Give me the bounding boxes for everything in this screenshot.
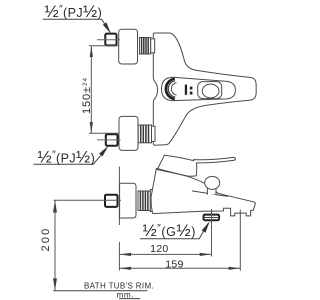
label PJ top: leader xyxy=(43,19,110,31)
dim 159 line xyxy=(119,267,240,269)
dim 120 line xyxy=(119,253,211,255)
bottom inlet: knurled nut xyxy=(138,125,155,143)
top inlet: knurled nut xyxy=(140,38,155,55)
side: handle lever xyxy=(157,155,235,176)
side: knurled nut xyxy=(138,190,157,212)
side: faucet body silhouette xyxy=(151,168,255,216)
side: wall flange xyxy=(120,183,136,218)
side: spout near-edge line xyxy=(192,191,228,197)
top inlet: eccentric square xyxy=(105,34,116,46)
top inlet: union flange xyxy=(119,29,138,64)
svg-text:120: 120 xyxy=(150,243,168,255)
label PJ bottom: leader xyxy=(33,149,106,165)
svg-text:200: 200 xyxy=(40,227,52,252)
side: diverter stem xyxy=(207,189,216,195)
side: body top edge at handle xyxy=(156,168,187,176)
svg-text:mm.: mm. xyxy=(117,290,135,299)
svg-text:½″(PJ½): ½″(PJ½) xyxy=(38,148,96,167)
dim 150 line xyxy=(90,46,92,133)
bottom inlet: union flange xyxy=(119,116,138,150)
svg-text:½″(PJ½): ½″(PJ½) xyxy=(45,2,103,21)
top view: indicator dots xyxy=(185,85,193,95)
top view: faucet body outline xyxy=(153,33,256,145)
top view: handle pill xyxy=(162,77,236,100)
dim 120 extension xyxy=(211,209,213,257)
dim 200: extension + line xyxy=(54,200,122,290)
dim 150 extension lines xyxy=(89,46,119,133)
label G: leader xyxy=(140,224,208,239)
side: eccentric square fitting xyxy=(105,195,118,207)
dim 150 arrows xyxy=(90,46,93,133)
dim 159 extension xyxy=(239,210,241,271)
top view: handle cap arcs xyxy=(166,79,175,99)
side: wall line xyxy=(118,167,120,271)
bottom inlet: pipe centerline xyxy=(97,139,121,141)
top view: diverter button plate xyxy=(198,82,222,99)
bath tub rim line xyxy=(53,290,147,292)
svg-text:159: 159 xyxy=(165,258,183,270)
svg-text:½″(G½): ½″(G½) xyxy=(143,221,197,240)
bottom inlet: eccentric square xyxy=(106,134,118,146)
side: shower outlet fitting G1/2 xyxy=(204,215,220,221)
top view: diverter button oval xyxy=(202,84,219,98)
note: mm underline xyxy=(119,298,140,300)
side: diverter ball xyxy=(205,176,220,189)
top inlet: pipe centerline xyxy=(97,39,120,41)
svg-text:BATH TUB'S RIM.: BATH TUB'S RIM. xyxy=(84,282,154,291)
